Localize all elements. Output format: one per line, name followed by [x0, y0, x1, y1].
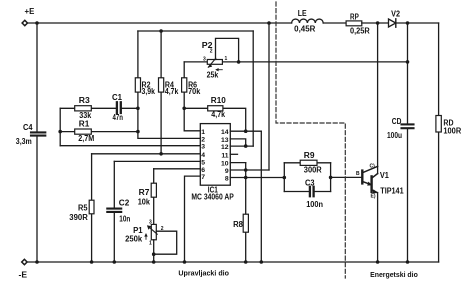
svg-text:3: 3: [201, 144, 205, 151]
wire CD branch: [407, 23, 409, 262]
junction (184.2,108.3): [182, 107, 186, 111]
svg-text:100n: 100n: [306, 200, 323, 209]
potentiometer P2: [207, 60, 222, 65]
svg-text:6: 6: [201, 167, 205, 174]
junction (330.6,177.4): [329, 176, 333, 180]
transistor V1 TIP141 darlington: [361, 171, 363, 184]
svg-text:47n: 47n: [113, 113, 124, 122]
svg-text:R3: R3: [79, 96, 91, 105]
junction (153.7,254.2): [152, 252, 156, 256]
svg-text:4,7k: 4,7k: [211, 110, 225, 119]
resistor R10: [208, 106, 223, 111]
svg-text:10k: 10k: [138, 198, 151, 207]
wire pin11 stub: [230, 153, 237, 155]
wire: [396, 22, 439, 24]
junction (60.2,131.6): [58, 130, 62, 134]
diode V2: [389, 19, 396, 27]
svg-text:C): C): [370, 164, 376, 170]
capacitor C1: [117, 102, 121, 113]
wire R4 branch: [160, 31, 162, 154]
junction (245.7,262): [244, 260, 248, 264]
svg-text:12: 12: [221, 144, 229, 151]
svg-text:LE: LE: [298, 9, 307, 18]
svg-text:C4: C4: [23, 123, 33, 132]
svg-text:R5: R5: [78, 204, 88, 213]
junction (245.7,146.1): [244, 144, 248, 148]
svg-text:8: 8: [225, 176, 229, 183]
wire R3 C1 row: [60, 107, 138, 109]
wire R10 row: [184, 108, 246, 131]
svg-text:5: 5: [201, 159, 205, 166]
svg-text:CD: CD: [392, 117, 402, 126]
junction (153.7,262): [152, 260, 156, 264]
resistor R7: [151, 183, 156, 197]
R9 C3 parallel block: [284, 163, 330, 192]
wire pin3 row: [60, 145, 200, 147]
svg-text:14: 14: [221, 129, 229, 136]
junction (245.7,177.5): [244, 176, 248, 180]
svg-text:0,25R: 0,25R: [350, 27, 370, 36]
capacitor C3: [310, 187, 314, 196]
junction (245.7,170): [244, 168, 248, 172]
wire pin7 drop: [185, 176, 201, 262]
svg-text:300R: 300R: [304, 166, 322, 175]
wire pin8 row: [230, 177, 284, 179]
svg-text:11: 11: [221, 152, 228, 159]
junction (377.6,262): [376, 260, 380, 264]
svg-text:13: 13: [221, 137, 229, 144]
wire P1 bottom: [153, 240, 155, 262]
svg-text:RP: RP: [350, 13, 359, 22]
junction (238.6,61.9): [237, 60, 241, 64]
svg-text:1: 1: [149, 241, 152, 247]
svg-text:-E: -E: [19, 271, 28, 280]
svg-text:250k: 250k: [125, 235, 143, 244]
node +E terminal: [22, 20, 27, 25]
junction (161.1,31): [159, 29, 163, 33]
junction (137.9,108.3): [136, 107, 140, 111]
svg-text:TIP141: TIP141: [380, 187, 404, 196]
junction (37,262): [35, 260, 39, 264]
wire pin14 drop: [260, 131, 262, 262]
resistor RP: [346, 21, 362, 26]
junction (184.5,262): [183, 260, 187, 264]
wire pin4 row: [92, 153, 201, 155]
junction (161.1,153.8): [159, 152, 163, 156]
wire: [362, 22, 389, 24]
svg-text:0,45R: 0,45R: [294, 25, 316, 34]
svg-text:10n: 10n: [119, 215, 130, 224]
resistor RD: [436, 116, 441, 133]
junction (269,23): [267, 21, 271, 25]
wire P1 wiper loop: [154, 231, 177, 254]
svg-text:Upravljacki dio: Upravljacki dio: [178, 269, 229, 278]
inductor LE: [292, 19, 324, 23]
wire right edge down: [438, 23, 440, 262]
svg-text:25k: 25k: [207, 71, 219, 80]
wire P2 left to R6: [184, 61, 207, 63]
wire top rail +E: [27, 22, 291, 24]
resistor R8: [243, 214, 248, 232]
capacitor C4: [31, 131, 45, 133]
svg-text:7: 7: [201, 174, 205, 181]
resistor R1: [75, 129, 92, 134]
svg-text:MC 34060 AP: MC 34060 AP: [191, 193, 233, 202]
wire sense line y62: [222, 61, 407, 63]
wire R6 branch: [184, 62, 200, 131]
svg-text:C3: C3: [305, 179, 315, 188]
junction (377.6,23): [376, 21, 380, 25]
wire R5 branch: [91, 154, 93, 262]
wire R1 row: [60, 131, 138, 133]
svg-text:2: 2: [201, 136, 205, 143]
wire left bus: [59, 108, 61, 145]
svg-text:100R: 100R: [443, 127, 461, 136]
svg-text:+E: +E: [25, 7, 35, 16]
wire pin13 jog: [230, 139, 245, 146]
wire pin6 row: [154, 168, 201, 170]
junction (245.7,131.2): [244, 129, 248, 133]
svg-text:9: 9: [225, 168, 229, 175]
svg-text:4,7k: 4,7k: [165, 87, 179, 96]
wire C3 row: [284, 191, 330, 193]
resistor R6: [182, 78, 187, 92]
svg-text:3: 3: [149, 220, 152, 226]
capacitor C2: [107, 208, 121, 210]
svg-text:Energetski dio: Energetski dio: [370, 270, 418, 279]
node -E terminal: [22, 259, 27, 264]
IC1 box: [200, 124, 230, 186]
svg-text:1: 1: [201, 129, 205, 136]
junction (407.5,61.9): [406, 60, 410, 64]
separator dashed line: [276, 2, 345, 278]
resistor R4: [159, 78, 164, 92]
wire pin9 row: [230, 169, 269, 171]
junction (407.5,262): [406, 260, 410, 264]
capacitor CD: [402, 123, 414, 125]
resistor R2: [135, 78, 140, 92]
junction (407.5,23): [406, 21, 410, 25]
wire R8 branch: [245, 163, 247, 262]
wire: [323, 22, 346, 24]
svg-text:390R: 390R: [69, 213, 88, 222]
wire C2 branch: [113, 161, 115, 262]
wire R2 branch: [138, 31, 200, 138]
junction (37,23): [35, 21, 39, 25]
wire pin12 row: [230, 145, 253, 147]
svg-text:100u: 100u: [387, 131, 402, 140]
wire P2 wiper loop: [216, 38, 239, 62]
wire pin12-13 riser: [252, 31, 254, 146]
wire pin14 row: [230, 130, 261, 132]
wire pin5 row: [114, 160, 200, 162]
resistor R9: [300, 160, 317, 165]
svg-text:70k: 70k: [188, 87, 201, 96]
junction (114.3,262): [113, 260, 117, 264]
svg-text:2: 2: [210, 49, 213, 55]
wire V1 collector riser: [377, 23, 379, 174]
svg-text:R1: R1: [79, 120, 90, 129]
wire R7 branch: [153, 169, 155, 225]
junction (137.9,131.6): [136, 130, 140, 134]
svg-text:3: 3: [203, 57, 206, 63]
svg-text:2,7M: 2,7M: [78, 134, 94, 143]
svg-text:3,9k: 3,9k: [142, 87, 156, 96]
svg-text:R10: R10: [211, 96, 227, 105]
svg-text:R8: R8: [233, 220, 243, 229]
wire +E drop to C4: [36, 23, 38, 262]
junction (91.6,262): [90, 260, 94, 264]
svg-text:C1: C1: [112, 93, 123, 102]
svg-text:V2: V2: [391, 10, 401, 19]
resistor R5: [89, 200, 94, 214]
junction (261.3,262): [260, 260, 264, 264]
potentiometer P1: [151, 224, 156, 239]
svg-text:R9: R9: [304, 151, 315, 160]
svg-text:10: 10: [221, 161, 229, 168]
svg-text:E): E): [371, 194, 376, 200]
svg-text:R7: R7: [139, 188, 150, 197]
svg-text:2: 2: [161, 226, 164, 232]
wire bottom rail -E: [27, 261, 439, 263]
wire V1 emitter drop: [377, 193, 379, 262]
svg-text:3,3m: 3,3m: [16, 137, 32, 146]
resistor R3: [75, 106, 92, 111]
svg-text:4: 4: [201, 152, 205, 159]
junction (284.3,177.5): [283, 176, 287, 180]
wire y31 row: [138, 30, 253, 32]
wire pin10 jog: [230, 162, 245, 164]
wire pin9 to +E riser: [268, 23, 270, 170]
svg-text:B: B: [356, 171, 360, 177]
svg-text:C2: C2: [119, 199, 130, 208]
wire base feed: [331, 176, 362, 178]
svg-text:1: 1: [225, 56, 228, 62]
svg-text:V1: V1: [380, 171, 390, 180]
